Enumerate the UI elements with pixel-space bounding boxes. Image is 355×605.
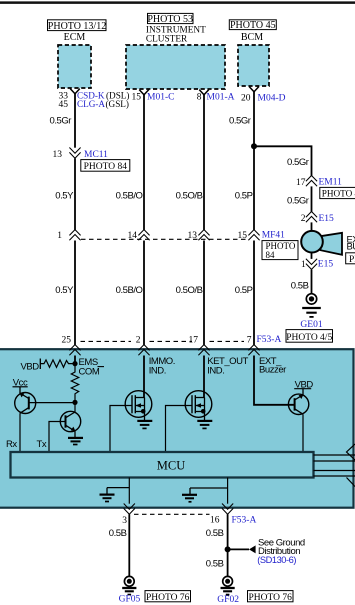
svg-text:0.5B: 0.5B <box>206 558 224 569</box>
svg-text:25: 25 <box>62 336 72 346</box>
svg-text:CLG-A: CLG-A <box>77 99 105 109</box>
ECM pin exit flare <box>70 89 80 94</box>
svg-text:GE01: GE01 <box>300 320 322 330</box>
module pin 2 <box>136 336 150 356</box>
svg-text:0.5Gr: 0.5Gr <box>287 157 309 168</box>
connector E15 pin 1 <box>301 259 333 270</box>
svg-text:0.5B: 0.5B <box>206 528 224 539</box>
pin 20 M04-D <box>241 94 286 104</box>
MOSFET M2 <box>185 391 212 418</box>
svg-text:15: 15 <box>132 93 142 103</box>
svg-text:7: 7 <box>247 336 252 346</box>
svg-text:Buzzer: Buzzer <box>259 365 286 376</box>
svg-text:8: 8 <box>197 93 202 103</box>
svg-text:F53-A: F53-A <box>232 516 257 526</box>
label EMS COM <box>79 357 105 377</box>
ground M1 source <box>137 412 152 429</box>
svg-text:PHOTO 13/12: PHOTO 13/12 <box>48 21 106 32</box>
svg-text:13: 13 <box>188 231 198 241</box>
wire label 0.5O/B upper <box>176 190 203 201</box>
wire EM11 to E15 <box>311 186 313 211</box>
wire label 0.5P upper <box>235 190 253 201</box>
BCM connector box <box>238 45 269 86</box>
label PHOTO 76 (GF02) <box>248 591 294 603</box>
svg-text:M04-D: M04-D <box>258 94 286 104</box>
module pin 7 <box>247 335 282 356</box>
wire label 0.5B (pin 16 upper) <box>206 528 224 539</box>
wire W3 MF41 to module pin 17 <box>203 241 205 345</box>
label PHOTO 84 (MF41) <box>262 241 298 260</box>
svg-text:0.5P: 0.5P <box>235 285 253 296</box>
wire W4 BCM to junction <box>253 91 255 146</box>
svg-text:PHOTO 76: PHOTO 76 <box>249 593 293 603</box>
svg-text:PHOTO 4/5: PHOTO 4/5 <box>286 333 332 343</box>
VBD supply tick <box>39 359 41 370</box>
ECM connector box <box>58 45 91 88</box>
module pin 17 <box>189 336 210 356</box>
transistor Q2 NPN <box>60 411 80 431</box>
svg-text:2: 2 <box>136 336 141 346</box>
wire label 0.5B/O lower <box>116 285 143 296</box>
BCM pin exit flare M04-D <box>249 87 259 92</box>
wire E15 to buzzer <box>311 222 313 233</box>
MOSFET M1 <box>125 391 152 418</box>
wire label 0.5Gr (W1) <box>49 116 71 127</box>
wire E15 to ground GE01 <box>311 270 313 294</box>
svg-text:E15: E15 <box>318 259 334 269</box>
wire junction to ground GF02 <box>227 549 229 576</box>
svg-text:0.5Y: 0.5Y <box>55 285 74 296</box>
wire label 0.5Gr (buzzer branch lower) <box>287 195 309 206</box>
ground internal left <box>100 488 130 502</box>
label IMMO. IND. <box>149 356 175 376</box>
svg-text:IND.: IND. <box>207 365 224 376</box>
svg-text:(GSL): (GSL) <box>106 99 129 109</box>
top border line <box>0 1 355 4</box>
transistor Q1 PNP <box>15 387 36 414</box>
label PHOTO 13/12 <box>48 20 107 32</box>
node EMS COM junction <box>72 361 77 366</box>
buzzer horn <box>321 233 343 255</box>
svg-text:0.5Y: 0.5Y <box>55 190 74 201</box>
svg-text:PHOTO 84: PHOTO 84 <box>84 162 128 172</box>
svg-text:0.5B: 0.5B <box>109 528 127 539</box>
svg-text:VBD: VBD <box>21 361 40 372</box>
svg-text:MCU: MCU <box>157 458 185 472</box>
pin 33 CSD-K (DSL) <box>59 91 130 102</box>
svg-text:Rx: Rx <box>6 439 17 450</box>
svg-text:0.5B/O: 0.5B/O <box>116 190 143 201</box>
svg-text:BCM: BCM <box>241 32 263 43</box>
wire MCU to module pin 3 <box>128 478 130 504</box>
wire label 0.5B/O upper <box>116 190 143 201</box>
svg-text:EM11: EM11 <box>319 177 343 187</box>
svg-text:PH: PH <box>349 255 355 265</box>
pin 8 M01-A <box>197 93 235 103</box>
svg-text:M01-A: M01-A <box>207 93 235 103</box>
ground GF02 <box>217 576 239 605</box>
connector MF41 row dashed link <box>81 238 248 240</box>
svg-text:84: 84 <box>266 250 276 260</box>
svg-text:1: 1 <box>301 260 306 270</box>
wire buzzer to E15 pin1 <box>311 253 313 259</box>
wire Q1 base to node <box>29 402 75 404</box>
right edge continuation arrows <box>347 444 355 487</box>
svg-text:20: 20 <box>241 94 251 104</box>
svg-text:0.5O/B: 0.5O/B <box>176 285 203 296</box>
wire M2 gate to MCU <box>166 406 193 453</box>
module pin 3 chevron <box>122 504 135 527</box>
resistor R1 horizontal <box>40 360 75 367</box>
connector EM11 pin 17 <box>296 176 342 188</box>
junction node W4 branch <box>251 143 257 149</box>
module bottom connector dashed link <box>134 513 210 515</box>
svg-text:BUZZER: BUZZER <box>347 242 355 253</box>
MF41 pin 1 <box>57 230 80 241</box>
svg-text:13: 13 <box>53 150 63 160</box>
wire W2 MF41 to module pin 2 <box>143 241 145 345</box>
label Rx <box>6 439 17 450</box>
svg-text:E15: E15 <box>319 214 335 224</box>
label KET_OUT IND. <box>207 356 248 376</box>
label BCM <box>241 32 263 43</box>
MCU box U1 <box>11 452 314 478</box>
svg-text:GF02: GF02 <box>217 595 239 605</box>
label PHOTO 4x (EM11) <box>320 187 355 198</box>
label See Ground Distribution <box>257 538 305 565</box>
svg-text:0.5B: 0.5B <box>291 281 309 292</box>
label PHOTO 53 <box>147 13 193 25</box>
wire node to Q2 collector <box>74 402 76 412</box>
label EXT BUZZER (clipped) <box>347 234 355 252</box>
wire Q1 collector to MCU (Rx) <box>19 413 21 452</box>
ground Q2 emitter <box>68 431 83 444</box>
wire junction to buzzer branch <box>254 146 312 175</box>
svg-text:45: 45 <box>59 100 69 110</box>
svg-text:IND.: IND. <box>149 365 166 376</box>
wire label 0.5B (pin 16 lower) <box>206 558 224 569</box>
ground GF05 <box>119 576 141 604</box>
svg-text:COM: COM <box>79 366 100 377</box>
svg-text:PHOTO 76: PHOTO 76 <box>146 593 190 603</box>
ground GE01 <box>300 294 322 330</box>
svg-text:PHOTO 53: PHOTO 53 <box>147 14 193 25</box>
instrument cluster connector box <box>126 45 225 89</box>
svg-text:17: 17 <box>189 336 199 346</box>
wire W1 MC11 to MF41 <box>74 158 76 229</box>
label VBD (Q3) <box>294 379 313 390</box>
wire module pin 25 to EMS COM node <box>74 356 76 365</box>
wire label 0.5O/B lower <box>176 285 203 296</box>
resistor R2 vertical <box>71 364 78 403</box>
svg-text:CLUSTER: CLUSTER <box>146 35 188 45</box>
module pin 16 chevron <box>210 504 256 526</box>
wire W3 cluster to MF41 <box>203 94 205 230</box>
svg-text:Tx: Tx <box>37 439 47 450</box>
label PHOTO 4/5 (GE01) <box>286 330 333 343</box>
wire pin 3 to ground GF05 <box>128 514 130 576</box>
wire MCU to module pin 16 <box>227 478 229 504</box>
wire module pin 2 to M1 drain <box>143 356 145 398</box>
wire label 0.5B (buzzer branch) <box>291 281 309 292</box>
wire module pin 7 to Q3 base <box>254 356 295 405</box>
wire label 0.5B (pin 3) <box>109 528 127 539</box>
ground internal right <box>182 488 228 502</box>
wire module pin 17 to M2 drain <box>203 356 205 398</box>
wire Q3 collector to MCU <box>302 414 304 452</box>
wire label 0.5P lower <box>235 285 253 296</box>
MCU output lines to right edge <box>314 455 355 476</box>
svg-text:16: 16 <box>210 516 220 526</box>
svg-text:0.5Gr: 0.5Gr <box>287 195 309 206</box>
svg-text:PHOTO 4: PHOTO 4 <box>322 188 355 198</box>
wire label 0.5Y lower <box>55 285 74 296</box>
wire pin 16 to junction <box>227 514 229 549</box>
pin 45 CLG-A (GSL) <box>59 99 129 110</box>
immobilizer control module box <box>0 349 354 508</box>
svg-text:0.5Gr: 0.5Gr <box>229 116 251 127</box>
label PHOTO 84 (MC11) <box>81 160 130 172</box>
wire W4 junction to MF41 <box>253 146 255 230</box>
svg-text:15: 15 <box>238 231 248 241</box>
connector E15 pin 2 <box>301 212 334 225</box>
wire W4 MF41 to module pin 7 <box>253 241 255 345</box>
label Tx <box>37 439 47 450</box>
label INSTRUMENT CLUSTER <box>146 25 206 44</box>
pin 15 M01-C <box>132 93 175 103</box>
label PHOTO 45 <box>229 20 276 31</box>
wire label 0.5Gr (buzzer branch upper) <box>287 157 309 168</box>
wire W2 cluster to MF41 <box>143 94 145 230</box>
cluster pin exit flare M01-A <box>199 90 209 95</box>
wire Q2 base to Tx <box>49 422 66 453</box>
wire W1 ECM to MC11 <box>74 93 76 148</box>
label ECM <box>64 32 86 43</box>
buzzer body <box>301 231 323 253</box>
MF41 pin 14 <box>128 230 150 241</box>
module pin 25 <box>62 336 81 356</box>
label Vcc <box>13 378 28 389</box>
junction node ground distribution <box>225 545 256 553</box>
svg-text:F53-A: F53-A <box>257 335 282 345</box>
svg-text:0.5Gr: 0.5Gr <box>49 116 71 127</box>
svg-text:0.5B/O: 0.5B/O <box>116 285 143 296</box>
svg-text:0.5O/B: 0.5O/B <box>176 190 203 201</box>
svg-text:MC11: MC11 <box>84 150 108 160</box>
wire W1 MF41 to module pin 25 <box>74 241 76 345</box>
svg-text:14: 14 <box>128 231 138 241</box>
svg-text:M01-C: M01-C <box>147 93 174 103</box>
wire label 0.5Y upper <box>55 190 74 201</box>
svg-text:ECM: ECM <box>64 32 86 43</box>
transistor Q3 PNP <box>288 389 308 415</box>
svg-text:GF05: GF05 <box>119 595 141 605</box>
label PHOTO (buzzer, clipped) <box>346 253 355 265</box>
connector MC11 <box>53 148 109 161</box>
svg-text:(SD130-6): (SD130-6) <box>257 555 296 565</box>
svg-text:17: 17 <box>296 178 306 188</box>
ground M2 source <box>197 412 212 429</box>
wire M1 gate to MCU <box>110 406 132 453</box>
svg-text:1: 1 <box>57 231 62 241</box>
svg-text:PHOTO 45: PHOTO 45 <box>230 20 276 31</box>
cluster pin exit flare M01-C <box>139 90 149 95</box>
label VBD (EMS) <box>21 361 40 372</box>
svg-text:2: 2 <box>301 214 306 224</box>
wire label 0.5Gr (W4) <box>229 116 251 127</box>
label PHOTO 76 (GF05) <box>145 591 191 603</box>
module connector F53-A top row dashed link <box>81 340 245 342</box>
svg-text:MF41: MF41 <box>262 230 285 240</box>
svg-text:3: 3 <box>122 516 127 526</box>
MF41 pin 15 <box>238 230 286 241</box>
MF41 pin 13 <box>188 230 210 241</box>
node base junction <box>72 400 77 405</box>
label EXT_ Buzzer <box>259 356 286 376</box>
svg-text:0.5P: 0.5P <box>235 190 253 201</box>
